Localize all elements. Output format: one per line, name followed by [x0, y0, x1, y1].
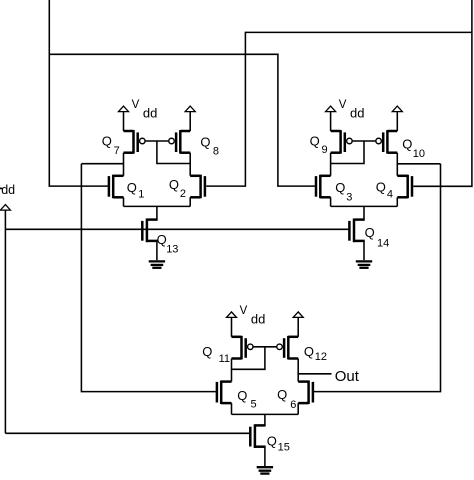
node left drain column (Q9/Q3) [330, 153, 332, 176]
svg-text:Q: Q [237, 388, 247, 403]
transistor Q5 (NMOS) [217, 381, 257, 411]
svg-text:V: V [132, 99, 140, 111]
wire cross-coupling: right cell output node down to Q6 gate [314, 164, 441, 392]
svg-text:14: 14 [377, 238, 389, 250]
svg-text:Q: Q [304, 344, 314, 359]
svg-text:5: 5 [251, 398, 257, 410]
power Vdd symbol (Q11) [227, 312, 237, 318]
wire Q15 gate line y=433 [5, 432, 250, 434]
svg-text:Q: Q [365, 225, 375, 240]
svg-text:Q: Q [202, 344, 212, 359]
svg-text:Q: Q [102, 134, 112, 149]
transistor Q6 (NMOS) [277, 381, 313, 412]
wire Vdd stem of Q9 [330, 112, 332, 131]
svg-text:10: 10 [413, 148, 425, 160]
svg-text:15: 15 [278, 442, 290, 454]
svg-text:13: 13 [166, 243, 178, 255]
svg-text:Q: Q [376, 179, 386, 194]
transistor Q1 (NMOS) [109, 175, 144, 201]
wire input net B: top horizontal y=32 into Q2 gate [206, 32, 472, 186]
wire tail node joining Q5/Q6 sources [232, 403, 299, 425]
wire Vdd stem of Q12 [297, 317, 299, 336]
wire cross-coupling: left cell output node down to Q5 gate [81, 164, 216, 392]
svg-text:9: 9 [322, 144, 328, 156]
svg-text:Out: Out [335, 368, 360, 385]
wire output tap Out [298, 373, 331, 375]
ground (below Q14) [356, 261, 372, 267]
wire tail node joining Q1/Q2 sources [124, 197, 191, 219]
transistor Q13 (NMOS tail) [142, 219, 178, 256]
wire gate bias line y=229 to Q13 and Q14 gates [5, 228, 349, 230]
power Vdd symbol (Q9) [326, 106, 336, 112]
svg-text:3: 3 [346, 191, 352, 203]
power Vdd symbol (Q12) [293, 312, 303, 318]
wire Q13 source to ground [156, 241, 158, 260]
svg-text:Q: Q [267, 434, 277, 449]
svg-text:Q: Q [200, 135, 210, 150]
wire tail node joining Q3/Q4 sources [331, 197, 398, 219]
wire gate line between Q11 and Q12 bubbles [253, 346, 276, 348]
power Vdd symbol (Q10) [392, 106, 402, 112]
node left drain column (Q7/Q1) [123, 153, 125, 176]
svg-text:7: 7 [114, 145, 120, 157]
svg-text:V: V [240, 305, 248, 317]
power Vdd symbol (Q7) [119, 106, 129, 112]
transistor Q3 (NMOS) [316, 175, 352, 204]
wire left Vdd rail stem down the left edge [4, 210, 6, 433]
wire Q14 source to ground [363, 241, 365, 260]
transistor Q7 (PMOS) [102, 130, 145, 157]
transistor Q10 (PMOS) [376, 130, 425, 160]
transistor Q11 (PMOS) [202, 336, 253, 365]
wire Vdd stem of Q10 [396, 112, 398, 131]
svg-text:Q: Q [402, 137, 412, 152]
svg-text:dd: dd [143, 106, 157, 121]
label Vdd of bottom cell [240, 305, 266, 327]
svg-text:Q: Q [127, 180, 137, 195]
label Vdd of left cell [132, 99, 158, 121]
ground (below Q15) [257, 467, 273, 473]
node left drain column (Q11/Q5) [231, 359, 233, 382]
svg-text:12: 12 [315, 351, 327, 363]
transistor Q15 (NMOS tail) [250, 424, 290, 453]
svg-text:11: 11 [219, 353, 230, 365]
node right drain column (Q10/Q4) [396, 153, 398, 176]
wire gate line between Q9 and Q10 bubbles [352, 140, 375, 142]
transistor Q12 (PMOS) [277, 336, 327, 363]
svg-text:Q: Q [277, 387, 287, 402]
wire PMOS gate drop to drain node (Q11/Q12) [232, 347, 265, 370]
transistor Q2 (NMOS) [169, 175, 205, 200]
svg-text:4: 4 [387, 189, 393, 201]
node right drain column (Q8/Q2) [189, 153, 191, 176]
wire Vdd stem of Q8 [189, 112, 191, 131]
power Vdd symbol (Q8) [185, 106, 195, 112]
wire net A branch: horizontal y=54 over to Q3 gate [49, 54, 316, 186]
transistor Q9 (PMOS) [310, 130, 353, 156]
svg-text:Q: Q [310, 134, 320, 149]
svg-text:Q: Q [335, 180, 345, 195]
wire input net A: top-left vertical into Q1/Q3 gates [49, 0, 108, 186]
transistor Q4 (NMOS) [376, 175, 412, 201]
svg-text:8: 8 [213, 145, 219, 157]
svg-text:Q: Q [169, 177, 179, 192]
svg-text:dd: dd [251, 311, 265, 326]
wire gate line between Q7 and Q8 bubbles [145, 140, 168, 142]
wire Q15 source to ground [264, 447, 266, 466]
wire Vdd stem of Q7 [123, 112, 125, 131]
node right drain column (Q12/Q6) [297, 359, 299, 382]
label Vdd of right cell [339, 99, 365, 121]
wire Vdd stem of Q11 [231, 317, 233, 336]
svg-text:2: 2 [180, 188, 186, 200]
node Out label [335, 368, 360, 385]
svg-text:dd: dd [350, 106, 364, 121]
svg-text:6: 6 [290, 399, 296, 411]
wire net B branch: top-right vertical into Q4 gate [413, 0, 472, 186]
transistor Q14 (NMOS tail) [349, 219, 389, 250]
ground (below Q13) [149, 261, 165, 267]
wire PMOS gate drop to drain node (Q7/Q8) [157, 141, 190, 164]
svg-text:1: 1 [138, 189, 144, 201]
wire PMOS gate drop to drain node (Q9/Q10) [331, 141, 364, 164]
svg-text:dd: dd [1, 183, 15, 197]
transistor Q8 (PMOS) [169, 130, 219, 157]
svg-text:V: V [339, 99, 347, 111]
power Vdd symbol (left rail, label dd) [0, 183, 15, 210]
